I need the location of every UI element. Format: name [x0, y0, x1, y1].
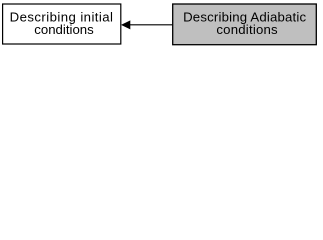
svg-text:conditions: conditions: [34, 22, 94, 37]
svg-text:conditions: conditions: [216, 22, 278, 37]
